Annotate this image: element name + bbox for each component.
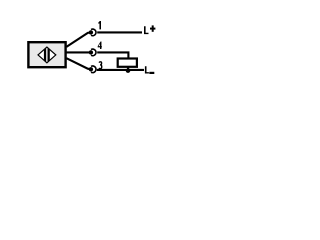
pin label 4 <box>98 42 102 50</box>
wire 3 to L- <box>97 69 144 71</box>
wire pin3 diagonal <box>66 58 91 69</box>
connector terminal 3 socket arc <box>91 66 96 73</box>
connector terminal 1 socket arc <box>91 29 96 36</box>
wire 1 to L+ <box>97 31 142 33</box>
connector terminal 4 dot <box>89 50 93 54</box>
wire load to node <box>127 68 129 71</box>
load resistor <box>118 59 137 67</box>
wire pin1 diagonal <box>66 32 91 47</box>
pin label 3 <box>99 62 102 69</box>
sensor symbol bars <box>44 47 50 63</box>
label L+ <box>144 25 155 34</box>
connector terminal 1 dot <box>89 30 93 34</box>
junction node dot <box>126 68 131 73</box>
sensor box U1 <box>28 42 65 67</box>
connector terminal 3 dot <box>89 67 93 71</box>
wire pin4 <box>66 51 89 53</box>
pin label 1 <box>98 21 101 29</box>
label L- <box>145 66 154 74</box>
sensor symbol diamond <box>38 47 56 63</box>
wire 4 with corner down <box>97 52 128 58</box>
connector terminal 4 socket arc <box>91 49 96 56</box>
